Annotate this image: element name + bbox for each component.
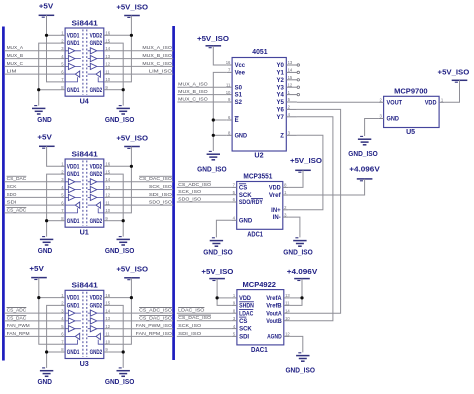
svg-text:4: 4 <box>61 185 64 190</box>
svg-text:10: 10 <box>105 339 110 344</box>
svg-text:5: 5 <box>288 97 291 102</box>
wire +5V_ISO to ADC1 VDD <box>288 170 303 187</box>
svg-text:6: 6 <box>61 200 64 205</box>
svg-text:+5V_ISO: +5V_ISO <box>116 135 148 142</box>
wire U2 Y7 to DAC1 VoutB <box>289 117 333 321</box>
svg-text:GND_ISO: GND_ISO <box>285 367 315 374</box>
svg-text:GND: GND <box>37 379 52 386</box>
svg-text:2: 2 <box>61 169 64 174</box>
ground GND (U4 left) <box>34 105 37 107</box>
svg-text:Si8441: Si8441 <box>72 151 98 158</box>
isolator U3 Si8441 body <box>65 290 104 358</box>
svg-text:12: 12 <box>285 332 290 337</box>
junction GND2 U4 pin9 <box>122 88 125 91</box>
svg-text:4: 4 <box>233 324 236 329</box>
wire net CS_ADC <box>4 312 60 314</box>
svg-text:SDO_ISO: SDO_ISO <box>149 200 172 206</box>
svg-text:13: 13 <box>288 60 293 65</box>
svg-text:11: 11 <box>105 332 110 337</box>
svg-text:IN+: IN+ <box>271 208 281 214</box>
svg-text:GND: GND <box>38 248 53 255</box>
buffer channel 1 U1 <box>68 179 75 185</box>
svg-text:SDO/RDY: SDO/RDY <box>239 200 263 206</box>
svg-text:LIM: LIM <box>7 69 17 75</box>
svg-text:U2: U2 <box>254 153 263 160</box>
junction GND2 U1 pin9 <box>122 219 125 222</box>
svg-text:15: 15 <box>288 75 293 80</box>
svg-text:6: 6 <box>61 69 64 74</box>
mux U2 4051 body <box>232 58 286 152</box>
svg-text:8: 8 <box>61 85 64 90</box>
svg-text:LDAC_ISO: LDAC_ISO <box>178 308 204 314</box>
svg-text:MUX_B_ISO: MUX_B_ISO <box>178 89 208 95</box>
ground GND_ISO (U4 right) <box>119 105 122 107</box>
svg-text:GND_ISO: GND_ISO <box>283 250 313 257</box>
junction GND1 U3 pin8 <box>45 350 48 353</box>
wire net CS_DAC_ISO <box>109 320 174 322</box>
svg-text:2: 2 <box>380 98 383 103</box>
wire net MUX_C_ISO to U2 <box>177 101 226 103</box>
svg-text:2: 2 <box>288 105 291 110</box>
svg-text:CS_DAC: CS_DAC <box>7 315 27 321</box>
svg-text:GND2: GND2 <box>90 41 103 47</box>
svg-text:8: 8 <box>228 131 231 136</box>
pins U2 right Y0-Y7,Z <box>286 64 297 66</box>
svg-text:SDO: SDO <box>7 192 17 198</box>
svg-text:9: 9 <box>105 216 108 221</box>
wire net FAN_RPM <box>4 335 60 337</box>
svg-text:GND2: GND2 <box>90 304 103 310</box>
svg-text:3: 3 <box>61 177 64 182</box>
svg-text:8: 8 <box>61 347 64 352</box>
svg-text:7: 7 <box>61 208 64 213</box>
svg-text:1: 1 <box>61 293 64 298</box>
wire net SCK_ISO to ADC1 <box>177 194 232 196</box>
pins U3 right 16-9 <box>104 297 109 299</box>
svg-text:2: 2 <box>284 205 287 210</box>
svg-text:10: 10 <box>105 77 110 82</box>
junction DAC1 VrefA <box>300 296 303 299</box>
buffer channel 1 U4 <box>68 48 75 54</box>
svg-text:9: 9 <box>105 347 108 352</box>
power +5V_ISO (DAC1) <box>209 278 225 280</box>
svg-text:SDI_ISO: SDI_ISO <box>149 192 172 198</box>
junction GND1 U1 pin8 <box>45 219 48 222</box>
svg-text:MCP4922: MCP4922 <box>243 282 277 289</box>
wire ADC1 IN- to GND_ISO <box>288 217 300 237</box>
junction +5V_ISO U3 pin16 <box>130 296 133 299</box>
power +4.096V (ADC1) <box>357 178 373 180</box>
svg-text:SCK: SCK <box>239 327 252 333</box>
svg-text:Y6: Y6 <box>277 108 285 114</box>
svg-text:FAN_PWM: FAN_PWM <box>7 323 30 329</box>
power +5V_ISO (ADC1) <box>295 169 311 171</box>
svg-text:6: 6 <box>233 197 236 202</box>
svg-text:4: 4 <box>288 112 291 117</box>
wire +5V stem to U4 pin1/pin7 <box>47 15 61 82</box>
svg-text:3: 3 <box>380 114 383 119</box>
wire net MUX_C <box>4 65 60 67</box>
svg-text:VDD: VDD <box>269 186 281 192</box>
svg-text:2: 2 <box>61 301 64 306</box>
svg-text:3: 3 <box>284 212 287 217</box>
junction U2 E <box>212 118 215 121</box>
svg-text:GND_ISO: GND_ISO <box>197 166 227 173</box>
svg-text:SDI: SDI <box>7 200 17 206</box>
svg-text:13: 13 <box>105 316 110 321</box>
wire net CS_DAC <box>4 181 60 183</box>
svg-text:+5V_ISO: +5V_ISO <box>197 36 230 43</box>
svg-text:Y3: Y3 <box>277 85 285 91</box>
wire net MUX_B <box>4 58 60 60</box>
svg-text:GND1: GND1 <box>67 304 80 310</box>
wire net MUX_A <box>4 50 60 52</box>
power +5V_ISO (U3 right) <box>124 277 140 279</box>
wire net CS_DAC <box>4 320 60 322</box>
svg-text:MCP9700: MCP9700 <box>394 88 428 95</box>
pins ADC1 left <box>231 186 236 188</box>
svg-text:VDD2: VDD2 <box>90 296 103 302</box>
svg-text:Vref: Vref <box>269 193 282 199</box>
svg-text:SDO_ISO: SDO_ISO <box>178 196 201 202</box>
reverse buffer channel U3 <box>75 333 79 339</box>
svg-text:+5V: +5V <box>37 135 52 142</box>
svg-text:Y7: Y7 <box>277 115 285 121</box>
svg-text:GND2: GND2 <box>90 88 103 94</box>
wire net CS_ADC_ISO <box>109 312 174 314</box>
wire U5 GND to GND_ISO <box>365 119 379 137</box>
svg-text:SCK_ISO: SCK_ISO <box>149 184 172 190</box>
svg-text:+5V_ISO: +5V_ISO <box>116 267 148 274</box>
wire GND2 loop U4 <box>109 43 124 106</box>
wire net CS_DAC_ISO <box>109 181 174 183</box>
wire +5V_ISO to DAC1 VDD/SHDN <box>217 279 232 306</box>
svg-text:GND1: GND1 <box>67 88 80 94</box>
svg-text:VDD2: VDD2 <box>90 33 103 39</box>
svg-text:SCK: SCK <box>7 184 18 190</box>
svg-text:MCP3551: MCP3551 <box>243 173 272 180</box>
no-connect circles U2 Y0-Y4 <box>297 64 299 66</box>
svg-text:U5: U5 <box>406 129 415 136</box>
svg-text:SCK: SCK <box>239 193 252 199</box>
svg-text:7: 7 <box>233 183 236 188</box>
ADC1 MCP3551 body <box>237 182 283 230</box>
svg-text:+5V: +5V <box>29 266 44 273</box>
svg-text:CS_ADC: CS_ADC <box>7 207 27 213</box>
buffer channel 3 U3 <box>68 326 75 332</box>
svg-text:U1: U1 <box>80 230 89 237</box>
svg-text:5: 5 <box>61 193 64 198</box>
pins U3 left 1-8 <box>60 297 65 299</box>
svg-text:14: 14 <box>105 46 110 51</box>
svg-text:GND_ISO: GND_ISO <box>105 379 135 386</box>
wire net LIM <box>4 73 60 75</box>
svg-text:CS_ADC: CS_ADC <box>7 308 27 314</box>
wire net MUX_C_ISO <box>109 65 174 67</box>
svg-text:GND_ISO: GND_ISO <box>203 250 233 257</box>
svg-text:CS: CS <box>239 319 247 325</box>
svg-text:4051: 4051 <box>252 49 267 56</box>
svg-text:7: 7 <box>61 339 64 344</box>
svg-text:3: 3 <box>61 46 64 51</box>
wire +5V stem to U1 pin1 <box>47 146 61 166</box>
junction +5V_ISO U4 pin16 <box>130 34 133 37</box>
svg-text:S2: S2 <box>235 100 243 106</box>
svg-text:5: 5 <box>61 324 64 329</box>
svg-text:10: 10 <box>105 208 110 213</box>
svg-text:5: 5 <box>61 62 64 67</box>
svg-text:+5V_ISO: +5V_ISO <box>116 4 148 11</box>
svg-text:MUX_A_ISO: MUX_A_ISO <box>142 45 172 51</box>
svg-text:6: 6 <box>61 332 64 337</box>
svg-text:Vee: Vee <box>235 71 246 77</box>
svg-text:U4: U4 <box>80 99 89 106</box>
wire U2 Vee/E/GND to GND_ISO <box>213 72 227 151</box>
svg-text:11: 11 <box>226 82 231 87</box>
svg-text:5: 5 <box>233 190 236 195</box>
ground GND (U3 left) <box>42 367 45 369</box>
svg-text:GND_ISO: GND_ISO <box>105 117 135 124</box>
svg-text:Si8441: Si8441 <box>72 20 98 27</box>
power +5V_ISO (U4 right) <box>124 15 140 17</box>
svg-text:GND2: GND2 <box>90 350 103 356</box>
wire net MUX_B_ISO <box>109 58 174 60</box>
ground GND_ISO (DAC1) <box>298 352 301 354</box>
wire U2 Z to ADC1 IN+ <box>288 135 323 210</box>
svg-text:MUX_C: MUX_C <box>7 61 24 67</box>
svg-text:U3: U3 <box>80 361 89 368</box>
svg-text:Y5: Y5 <box>277 100 285 106</box>
svg-text:Y2: Y2 <box>277 78 285 84</box>
svg-text:14: 14 <box>288 68 293 73</box>
svg-text:Y0: Y0 <box>277 63 285 69</box>
svg-text:MUX_C_ISO: MUX_C_ISO <box>142 61 172 67</box>
bus left <box>2 27 5 361</box>
wire +4.096V to DAC1 VrefA/VrefB <box>289 279 302 306</box>
svg-text:Si8441: Si8441 <box>72 283 98 290</box>
svg-text:+5V: +5V <box>39 4 54 11</box>
svg-text:VoutB: VoutB <box>266 319 282 325</box>
svg-text:2: 2 <box>61 38 64 43</box>
svg-text:6: 6 <box>228 115 231 120</box>
wire net LIM_ISO <box>109 73 174 75</box>
svg-text:SCK_ISO: SCK_ISO <box>178 189 201 195</box>
svg-text:15: 15 <box>105 169 110 174</box>
wire GND2 loop U1 <box>109 174 124 237</box>
svg-text:4: 4 <box>61 54 64 59</box>
pins U1 left 1-8 <box>60 165 65 167</box>
wire net CS_DAC_ISO to DAC1 <box>177 320 232 322</box>
svg-text:AGND: AGND <box>267 335 282 341</box>
wire net SDO <box>4 196 60 198</box>
svg-text:3: 3 <box>233 316 236 321</box>
svg-text:Vcc: Vcc <box>235 63 246 69</box>
svg-text:+4.096V: +4.096V <box>287 269 318 276</box>
junction DAC1 VDD <box>216 296 219 299</box>
wire +5V_ISO stem to U1 pin16/pin10 <box>109 147 132 213</box>
svg-text:12: 12 <box>105 193 110 198</box>
power +5V_ISO (U1 right) <box>124 146 140 148</box>
svg-text:13: 13 <box>105 54 110 59</box>
wire +5V stem to U3 pin1/pin7 <box>39 278 60 345</box>
wire net MUX_A_ISO <box>109 50 174 52</box>
svg-text:16: 16 <box>105 31 110 36</box>
power +4.096V (DAC1) <box>294 278 310 280</box>
buffer channel 1 U3 <box>68 310 75 316</box>
svg-text:9: 9 <box>105 85 108 90</box>
pins U1 right 16-9 <box>104 165 109 167</box>
svg-text:16: 16 <box>226 60 231 65</box>
svg-text:15: 15 <box>105 301 110 306</box>
svg-text:VoutA: VoutA <box>266 311 282 317</box>
svg-text:+5V_ISO: +5V_ISO <box>290 158 323 165</box>
wire net SDI_ISO <box>109 196 174 198</box>
wire ADC1 GND to GND_ISO <box>216 220 231 237</box>
svg-text:GND: GND <box>37 117 52 124</box>
svg-text:ADC1: ADC1 <box>247 231 263 238</box>
svg-text:CS_ADC_ISO: CS_ADC_ISO <box>139 308 172 314</box>
ground GND_ISO (ADC1 right) <box>295 237 298 239</box>
svg-text:10: 10 <box>226 90 231 95</box>
svg-text:7: 7 <box>61 77 64 82</box>
buffer channel 2 U4 <box>68 56 75 62</box>
svg-text:1: 1 <box>61 162 64 167</box>
svg-text:12: 12 <box>105 62 110 67</box>
svg-text:FAN_RPM: FAN_RPM <box>7 331 30 337</box>
svg-text:+5V_ISO: +5V_ISO <box>438 70 470 77</box>
svg-text:CS_DAC_ISO: CS_DAC_ISO <box>139 315 172 321</box>
svg-text:FAN_RPM_ISO: FAN_RPM_ISO <box>136 331 172 337</box>
svg-text:Y1: Y1 <box>277 71 285 77</box>
svg-text:+4.096V: +4.096V <box>349 167 380 174</box>
pins DAC1 right <box>284 297 289 299</box>
svg-text:VrefA: VrefA <box>266 296 282 302</box>
pins ADC1 right <box>283 186 288 188</box>
svg-text:14: 14 <box>105 177 110 182</box>
svg-text:3: 3 <box>288 131 291 136</box>
svg-text:GND: GND <box>387 117 400 123</box>
wire net MUX_A_ISO to U2 <box>177 86 226 88</box>
wire +4.096V to ADC1 Vref <box>288 179 365 195</box>
wire net SDI_ISO to DAC1 <box>177 335 232 337</box>
svg-text:9: 9 <box>233 301 236 306</box>
junction U2 GND <box>212 134 215 137</box>
power +5V (U3 left) <box>31 277 47 279</box>
svg-text:16: 16 <box>105 162 110 167</box>
svg-text:GND1: GND1 <box>67 172 80 178</box>
svg-text:12: 12 <box>105 324 110 329</box>
ground GND (U1 left) <box>42 236 45 238</box>
svg-text:4: 4 <box>233 216 236 221</box>
ground GND_ISO (U1 right) <box>119 236 122 238</box>
svg-text:3: 3 <box>61 308 64 313</box>
svg-text:GND: GND <box>235 133 248 139</box>
svg-text:SCK_ISO: SCK_ISO <box>178 323 201 329</box>
svg-text:FAN_PWM_ISO: FAN_PWM_ISO <box>136 323 172 329</box>
svg-text:E: E <box>235 118 239 124</box>
wire +5V_ISO to U2 Vcc <box>213 46 227 65</box>
svg-text:CS_DAC_ISO: CS_DAC_ISO <box>139 176 172 182</box>
svg-text:GND1: GND1 <box>67 219 80 225</box>
svg-text:GND: GND <box>239 218 253 224</box>
svg-text:MUX_B_ISO: MUX_B_ISO <box>142 53 172 59</box>
wire net FAN_RPM_ISO <box>109 335 174 337</box>
wire net CS_ADC_ISO to ADC1 <box>177 186 232 188</box>
power +5V_ISO (U5) <box>452 79 468 81</box>
svg-text:+5V_ISO: +5V_ISO <box>201 269 234 276</box>
svg-text:1: 1 <box>61 31 64 36</box>
svg-text:1: 1 <box>233 293 236 298</box>
svg-text:S1: S1 <box>235 93 243 99</box>
svg-text:14: 14 <box>285 308 290 313</box>
svg-text:7: 7 <box>228 68 231 73</box>
buffer channel 2 U3 <box>68 318 75 324</box>
svg-text:VDD1: VDD1 <box>67 33 80 39</box>
svg-text:13: 13 <box>105 185 110 190</box>
svg-text:GND_ISO: GND_ISO <box>105 248 135 255</box>
ground GND_ISO (U5) <box>360 135 363 137</box>
svg-text:LIM_ISO: LIM_ISO <box>149 69 172 75</box>
svg-text:LDAC: LDAC <box>239 311 254 317</box>
wire GND1 loop U1 <box>47 174 61 237</box>
svg-text:MUX_C_ISO: MUX_C_ISO <box>178 96 208 102</box>
wire +5V_ISO stem to U4 pin16/pin10 <box>109 16 132 82</box>
DAC1 MCP4922 body <box>237 290 284 345</box>
svg-text:11: 11 <box>105 69 110 74</box>
svg-text:CS_DAC_ISO: CS_DAC_ISO <box>178 315 211 321</box>
wire net SDO_ISO <box>109 204 174 206</box>
pins U4 left 1-8 <box>60 34 65 36</box>
bus middle <box>172 26 175 360</box>
pins DAC1 left <box>232 297 237 299</box>
wire GND1 loop U3 <box>47 305 61 368</box>
power +5V (U1 left) <box>39 145 55 147</box>
svg-text:16: 16 <box>105 293 110 298</box>
pins U4 right 16-9 <box>104 34 109 36</box>
wire net FAN_PWM_ISO <box>109 328 174 330</box>
svg-text:CS_ADC_ISO: CS_ADC_ISO <box>178 182 211 188</box>
wire GND2 loop U3 <box>109 305 124 368</box>
svg-text:VDD2: VDD2 <box>90 164 103 170</box>
svg-text:MUX_A: MUX_A <box>7 45 24 51</box>
svg-text:S0: S0 <box>235 85 243 91</box>
wire U2 Y5 to U5 VOUT <box>297 101 378 103</box>
svg-text:12: 12 <box>288 82 293 87</box>
isolator U4 Si8441 body <box>65 28 104 96</box>
wire DAC1 AGND to GND_ISO <box>289 336 303 352</box>
svg-text:CS_DAC: CS_DAC <box>7 176 27 182</box>
svg-text:13: 13 <box>285 293 290 298</box>
svg-text:GND1: GND1 <box>67 41 80 47</box>
svg-text:VDD: VDD <box>425 100 437 106</box>
power +5V (U4 left) <box>39 14 55 16</box>
buffer channel 3 U1 <box>68 194 75 200</box>
svg-text:14: 14 <box>105 308 110 313</box>
junction +5V U3 pin1 <box>37 296 40 299</box>
wire net SCK_ISO to DAC1 <box>177 328 232 330</box>
svg-text:IN-: IN- <box>273 215 281 221</box>
svg-text:MUX_A_ISO: MUX_A_ISO <box>178 82 208 88</box>
svg-text:8: 8 <box>61 216 64 221</box>
buffer channel 2 U1 <box>68 187 75 193</box>
svg-text:15: 15 <box>105 38 110 43</box>
svg-text:11: 11 <box>105 200 110 205</box>
svg-text:GND2: GND2 <box>90 172 103 178</box>
svg-text:SHDN: SHDN <box>239 304 254 310</box>
ground GND_ISO (U2) <box>209 150 212 152</box>
junction +5V_ISO U1 pin16 <box>130 165 133 168</box>
svg-text:GND2: GND2 <box>90 219 103 225</box>
